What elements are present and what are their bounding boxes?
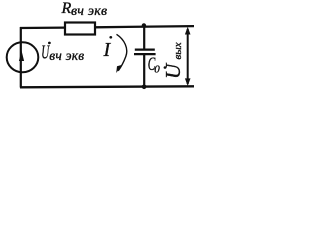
wire top-left segment (20, 26, 65, 29)
capacitor C0 bottom stub (143, 54, 145, 87)
junction node top (142, 23, 146, 27)
label U вых rotated (161, 42, 185, 79)
wire left vertical (20, 27, 22, 88)
svg-text:0: 0 (154, 64, 160, 76)
wire bottom (20, 86, 194, 87)
capacitor C0 top plate (135, 48, 155, 50)
svg-text:I: I (103, 39, 112, 61)
svg-text:U: U (161, 62, 185, 79)
svg-text:вых: вых (172, 42, 184, 59)
wire top-right segment (95, 26, 194, 27)
svg-text:вч экв: вч экв (71, 4, 107, 19)
current source arrow head (19, 51, 24, 62)
curved arrow of current I (117, 34, 127, 71)
svg-text:вч экв: вч экв (49, 48, 84, 63)
resistor Rвч экв box (65, 23, 95, 35)
svg-text:R: R (61, 0, 72, 17)
voltage arrow U вых (double headed) (187, 29, 189, 84)
current source U вч экв circle (7, 42, 39, 72)
capacitor C0 top stub (143, 27, 145, 49)
capacitor C0 bottom plate (134, 53, 156, 55)
junction node bottom (142, 85, 147, 90)
